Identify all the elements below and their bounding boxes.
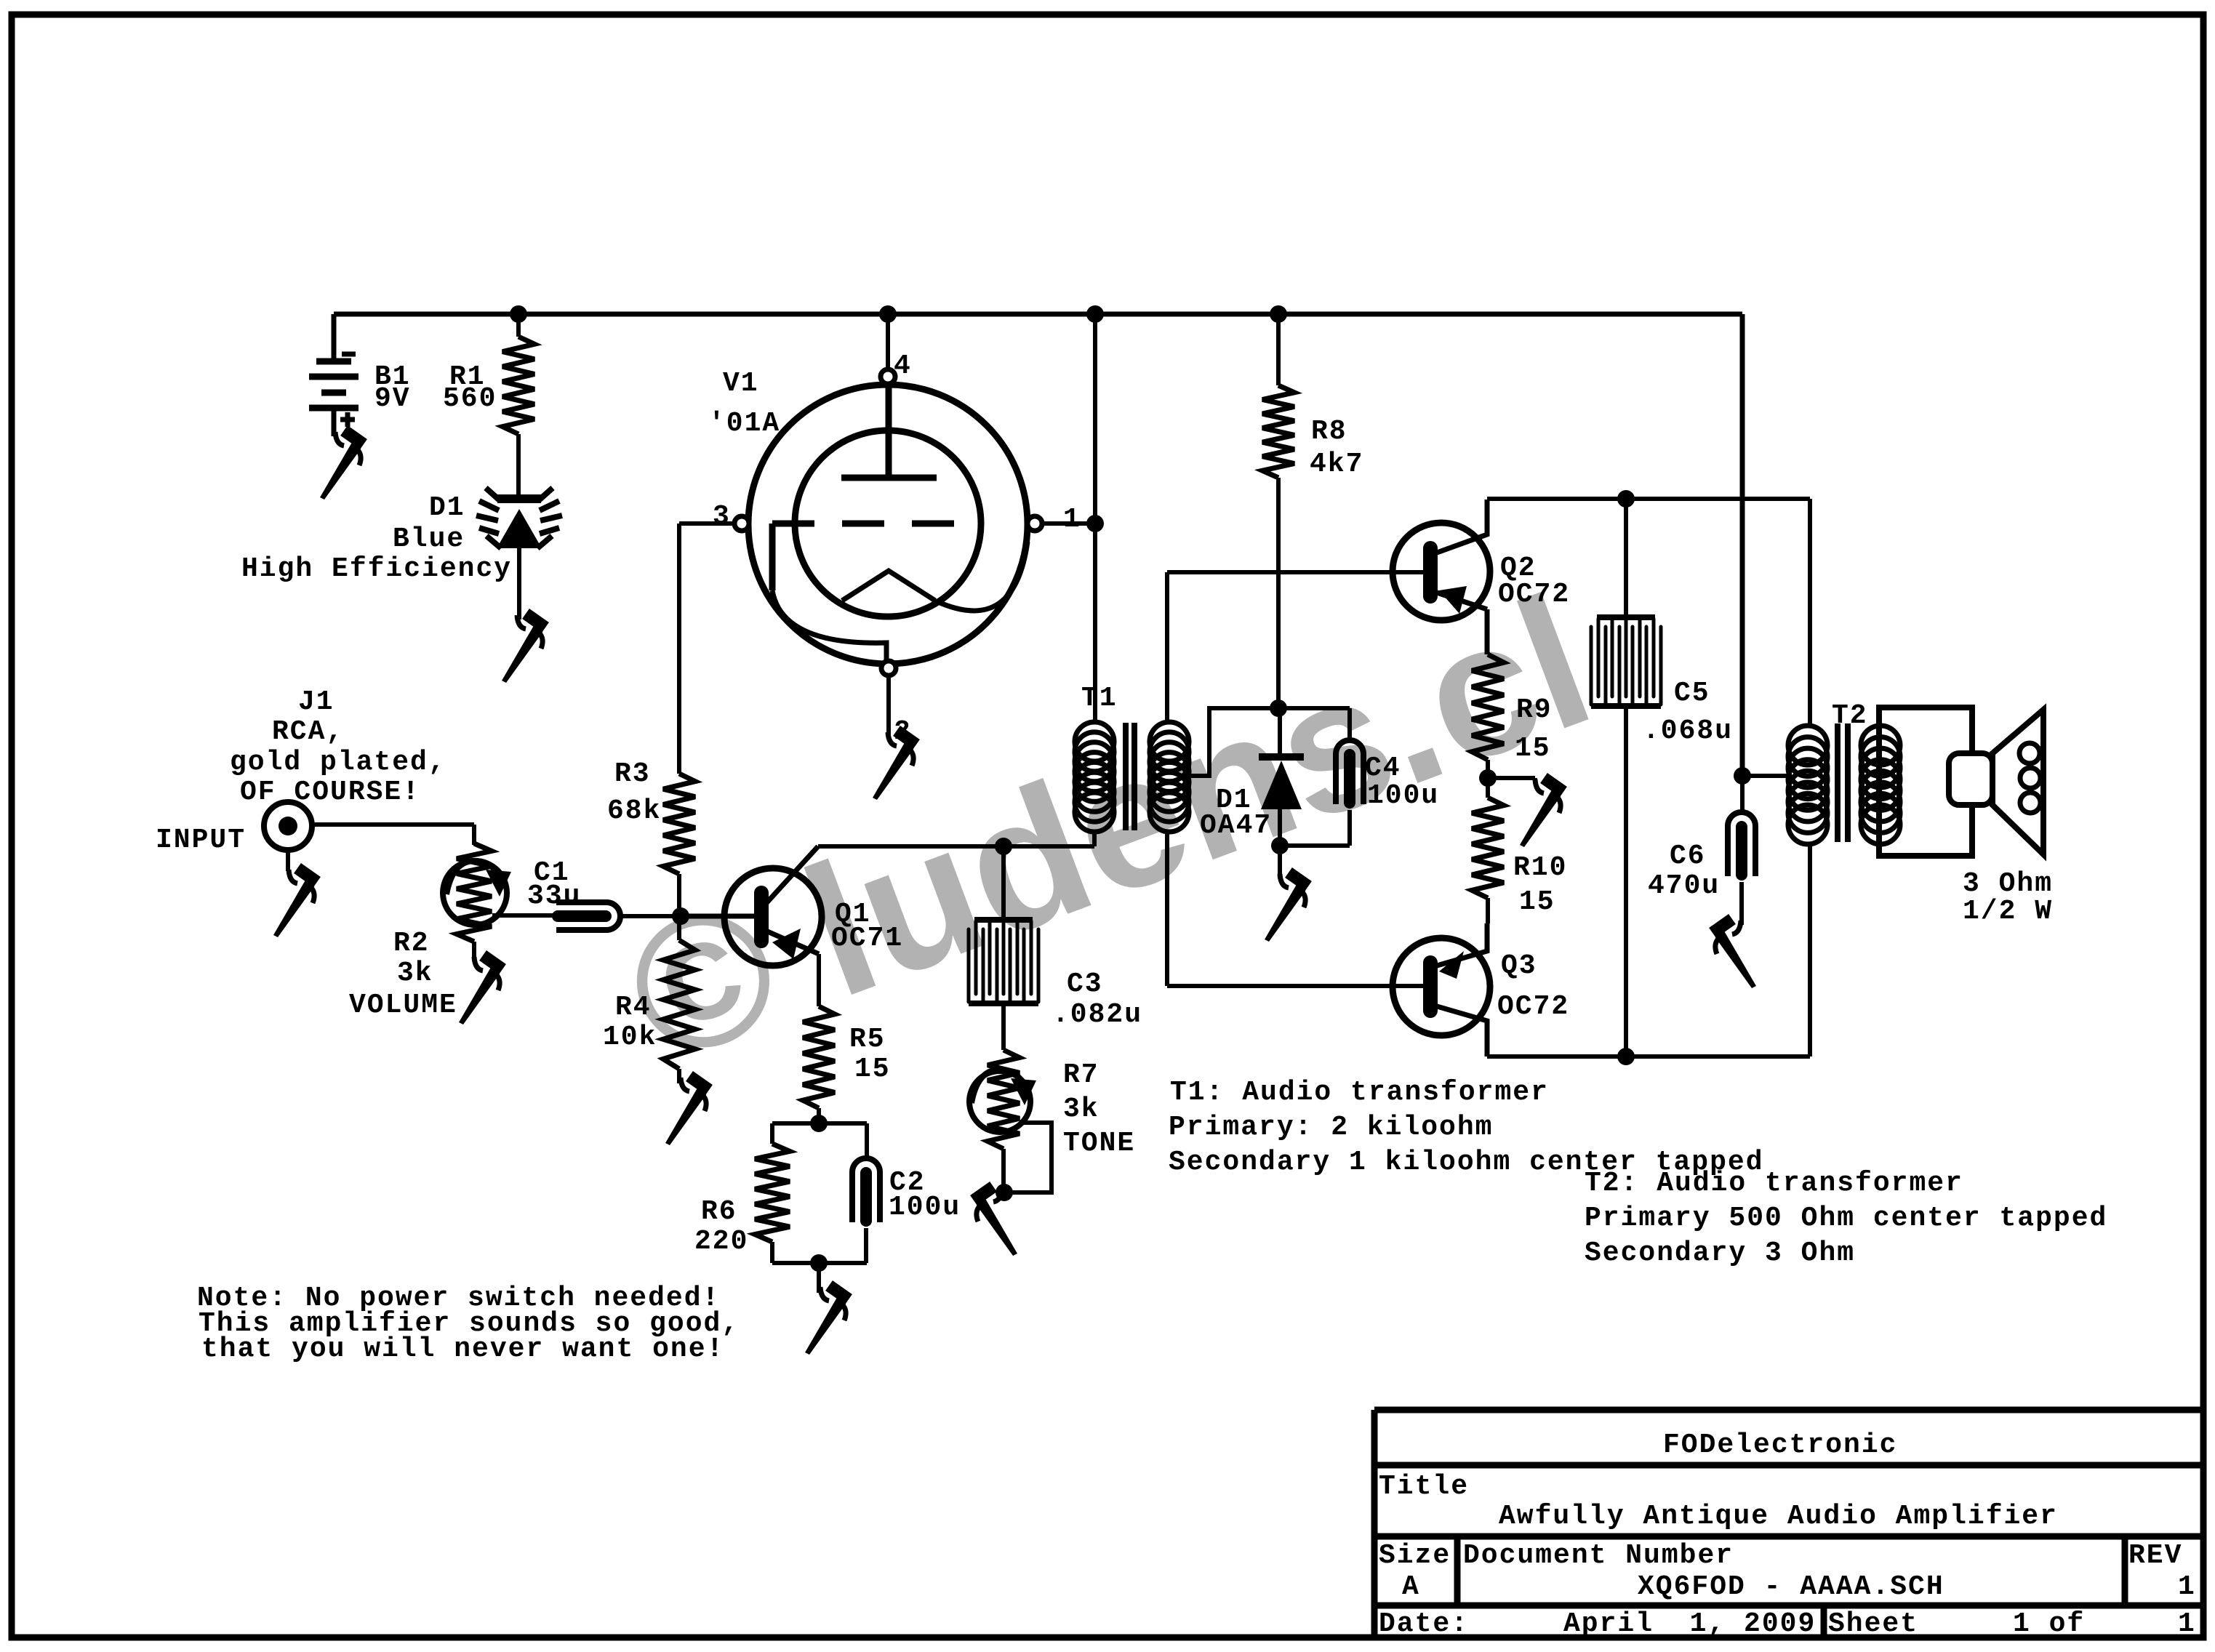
wire R6C2 bottom — [772, 1261, 867, 1265]
capacitor C3 top lead — [1001, 846, 1006, 917]
svg-text:.082u: .082u — [1052, 999, 1142, 1030]
label .068u — [1643, 715, 1733, 747]
label OF COURSE! — [240, 777, 420, 808]
label '01A — [708, 408, 780, 439]
note bottom line2 — [199, 1308, 740, 1339]
label 33u — [527, 881, 581, 912]
label C3 — [1067, 969, 1103, 1000]
svg-text:R5: R5 — [849, 1024, 886, 1055]
svg-text:.068u: .068u — [1643, 715, 1733, 747]
label D1 — [429, 492, 465, 524]
label R10 — [1513, 852, 1567, 883]
transistor Q2 emitter — [1437, 593, 1487, 609]
label Q3 — [1501, 950, 1537, 982]
svg-text:TONE: TONE — [1063, 1128, 1135, 1159]
transistor Q3 circle — [1393, 938, 1490, 1035]
label Q2 — [1500, 553, 1537, 584]
svg-text:April 1, 2009: April 1, 2009 — [1563, 1608, 1816, 1640]
label VOLUME — [349, 990, 457, 1021]
title company — [1663, 1430, 1897, 1461]
tube V1 right inner arc — [937, 542, 1028, 611]
transistor Q2 base bar — [1423, 548, 1438, 596]
title date — [1563, 1608, 1816, 1640]
diode D1 triangle — [1261, 761, 1302, 809]
node R6C2 ground — [810, 1254, 828, 1272]
battery minus sign — [342, 352, 356, 357]
node pin1 junction — [1086, 515, 1104, 532]
tube V1 pin 4 — [881, 369, 895, 384]
svg-text:Size: Size — [1379, 1540, 1451, 1571]
ground pin at R9R10 — [1520, 778, 1563, 847]
potentiometer R7 bottom lead — [1001, 1149, 1006, 1192]
svg-text:R4: R4 — [615, 992, 652, 1023]
svg-text:1: 1 — [2178, 1571, 2196, 1603]
capacitor C2 — [852, 1158, 880, 1222]
title rev 1 — [2178, 1571, 2196, 1603]
svg-text:R3: R3 — [614, 758, 651, 790]
svg-text:OA47: OA47 — [1200, 810, 1272, 841]
node C5 top — [1617, 490, 1635, 508]
transformer T1 secondary coil — [1150, 722, 1189, 832]
potentiometer R7 circle — [969, 1071, 1030, 1132]
diode D1 top lead — [1278, 708, 1282, 757]
svg-text:Q3: Q3 — [1501, 950, 1537, 982]
svg-text:3k: 3k — [1063, 1094, 1100, 1125]
title date label — [1379, 1608, 1469, 1640]
node R7 wiper join — [996, 1184, 1013, 1201]
label D1 OA47 ref — [1216, 785, 1252, 816]
transformer T1 primary lead top — [1093, 314, 1097, 723]
ground pin at R4 — [665, 1076, 709, 1145]
speaker driver — [1949, 753, 1992, 805]
title doc label — [1463, 1540, 1734, 1571]
tube V1 filament — [842, 571, 935, 601]
svg-text:that you will never want one!: that you will never want one! — [201, 1334, 724, 1365]
node rail-T1 — [1086, 305, 1104, 323]
label .082u — [1052, 999, 1142, 1030]
title block grid — [1374, 1410, 2203, 1637]
capacitor C5 top lead — [1624, 499, 1628, 617]
label OC72 Q3 — [1497, 991, 1569, 1022]
ground pin at R6C2 — [805, 1286, 849, 1355]
capacitor C3 bottom lead — [1001, 1006, 1006, 1050]
label 3k — [397, 958, 433, 989]
resistor R5 top lead — [817, 954, 821, 1006]
resistor R5 — [803, 1006, 835, 1108]
tube V1 envelope — [748, 385, 1028, 664]
battery B1 bottom lead — [332, 408, 337, 436]
transistor Q3 collector — [1437, 1006, 1487, 1056]
wire J1 to R2 — [312, 825, 474, 845]
transformer T1 secondary top lead — [1165, 572, 1169, 722]
label R2 — [393, 928, 430, 959]
note T1 line3 — [1169, 1147, 1764, 1178]
label R9 — [1516, 694, 1553, 726]
label 1/2 W — [1963, 896, 2053, 927]
svg-text:'01A: '01A — [708, 408, 780, 439]
label 15 R9 — [1515, 733, 1551, 764]
wire V1 pin4 to rail — [886, 314, 890, 369]
transistor Q3 emitter arrow — [1439, 951, 1464, 979]
label 560 — [443, 383, 497, 414]
capacitor C6 — [1728, 812, 1755, 876]
label V1 — [723, 368, 759, 399]
label OC72 Q2 — [1498, 579, 1570, 610]
potentiometer R2 element — [457, 843, 492, 942]
svg-text:R2: R2 — [393, 928, 430, 959]
capacitor C3 — [969, 920, 1038, 1003]
svg-text:4: 4 — [894, 350, 912, 382]
svg-text:4k7: 4k7 — [1310, 449, 1363, 480]
label 100u C4 — [1367, 780, 1439, 811]
transformer T2 secondary coil — [1861, 726, 1900, 844]
potentiometer R2 wiper wire — [492, 913, 557, 918]
svg-text:Document Number: Document Number — [1463, 1540, 1734, 1571]
title size A — [1402, 1571, 1420, 1603]
capacitor C4 top lead — [1347, 708, 1352, 740]
tube V1 plate — [841, 383, 937, 478]
potentiometer R7 arrow — [972, 1070, 1036, 1105]
transistor Q2 circle — [1393, 523, 1490, 620]
resistor R8 bottom lead — [1276, 478, 1281, 708]
wire +9V top rail — [334, 312, 1742, 317]
transistor Q3 emitter — [1437, 923, 1487, 966]
wire R6C2 top — [772, 1121, 867, 1126]
label 9V — [374, 383, 411, 414]
label TONE — [1063, 1128, 1135, 1159]
tube V1 inner circle — [795, 430, 981, 617]
wire J1 ground stub — [286, 850, 290, 871]
resistor R1 bottom lead — [516, 434, 521, 496]
svg-text:C5: C5 — [1674, 678, 1710, 709]
label OA47 — [1200, 810, 1272, 841]
transformer T1 center tap — [1188, 708, 1350, 776]
transistor Q3 base bar — [1423, 963, 1438, 1011]
transistor Q2 collector — [1437, 500, 1487, 553]
tube V1 pin 3 — [734, 516, 749, 531]
label 470u — [1648, 870, 1720, 902]
LED D1 rays left — [476, 488, 501, 548]
svg-text:A: A — [1402, 1571, 1420, 1603]
wire rail drop to T2 center tap — [1740, 314, 1745, 776]
title sheet total — [2178, 1608, 2196, 1640]
label T2 — [1832, 700, 1868, 731]
label RCA, — [272, 716, 344, 747]
svg-text:V1: V1 — [723, 368, 759, 399]
svg-text:OC72: OC72 — [1497, 991, 1569, 1022]
battery B1 top lead — [332, 314, 337, 361]
label 2 — [894, 716, 912, 747]
resistor R3 — [663, 774, 695, 874]
svg-text:220: 220 — [694, 1226, 748, 1257]
LED D1 triangle — [497, 509, 542, 548]
label 220 — [694, 1226, 748, 1257]
svg-text:68k: 68k — [607, 795, 661, 827]
wire D1C4 ground stub — [1278, 846, 1282, 878]
title sheet 1 of — [2013, 1608, 2085, 1640]
wire D1-C4 bottom — [1280, 843, 1350, 848]
svg-text:XQ6FOD - AAAA.SCH: XQ6FOD - AAAA.SCH — [1638, 1571, 1944, 1603]
label 3k tone — [1063, 1094, 1100, 1125]
capacitor C1 right lead — [622, 914, 681, 918]
node Q1 base junction — [672, 907, 689, 925]
ground pin at C6 — [1713, 919, 1756, 988]
ground pin at D1C4 — [1265, 873, 1308, 942]
transistor Q1 collector — [766, 846, 818, 904]
transformer T2 center tap wire — [1742, 774, 1788, 778]
transistor Q1 emitter — [766, 931, 819, 954]
resistor R1 top lead — [516, 314, 521, 337]
diode D1 cathode bar — [1259, 753, 1304, 761]
label C4 — [1365, 753, 1401, 784]
resistor R10 bottom lead — [1486, 898, 1490, 923]
transistor Q1 base lead — [681, 914, 754, 919]
node C5 bottom — [1617, 1048, 1635, 1065]
label 4 — [894, 350, 912, 382]
capacitor C2 bottom lead — [864, 1228, 868, 1263]
diode D1 bottom lead — [1278, 809, 1282, 846]
note T2 line1 — [1585, 1168, 1963, 1199]
label R6 — [701, 1196, 737, 1227]
label R5 — [849, 1024, 886, 1055]
potentiometer R7 element — [988, 1050, 1020, 1149]
node T2 center tap — [1734, 767, 1751, 785]
wire R6C2 ground stub — [817, 1263, 821, 1293]
title rev label — [2128, 1540, 2182, 1571]
transformer T1 core — [1126, 723, 1134, 830]
speaker horn — [1992, 710, 2043, 854]
connector J1 RCA jack — [264, 802, 312, 850]
resistor R5 bottom lead — [817, 1108, 821, 1123]
label R4 — [615, 992, 652, 1023]
svg-text:High Efficiency: High Efficiency — [241, 553, 512, 585]
LED D1 rays right — [537, 488, 562, 548]
ground pin at R7 — [974, 1187, 1017, 1256]
svg-text:T1: Audio transformer: T1: Audio transformer — [1170, 1077, 1549, 1108]
label 15 — [854, 1054, 891, 1085]
title size label — [1379, 1540, 1451, 1571]
wire collector rail top — [1487, 497, 1810, 501]
svg-text:C6: C6 — [1670, 841, 1706, 872]
title name — [1499, 1501, 2058, 1532]
battery plus sign — [340, 412, 355, 427]
svg-text:VOLUME: VOLUME — [349, 990, 457, 1021]
svg-text:REV: REV — [2128, 1540, 2182, 1571]
svg-text:T1: T1 — [1081, 683, 1118, 714]
resistor R10 — [1472, 798, 1504, 898]
note T2 line3 — [1585, 1238, 1855, 1269]
resistor R4 top lead — [677, 916, 681, 940]
wire T1 sec bottom to Q3 base — [1167, 984, 1423, 988]
ground pin at R2 — [459, 955, 502, 1025]
svg-text:Secondary 3 Ohm: Secondary 3 Ohm — [1585, 1238, 1855, 1269]
label C5 — [1674, 678, 1710, 709]
resistor R9 — [1472, 654, 1504, 760]
transformer T1 primary coil — [1075, 722, 1114, 832]
label R1 — [449, 361, 486, 393]
svg-text:T2: Audio transformer: T2: Audio transformer — [1585, 1168, 1963, 1199]
speaker frame — [1879, 707, 1972, 856]
label 1 — [1063, 504, 1081, 535]
svg-text:INPUT: INPUT — [156, 825, 246, 856]
svg-text:Primary 500 Ohm center tapped: Primary 500 Ohm center tapped — [1585, 1203, 2107, 1234]
label Blue — [393, 524, 465, 555]
svg-text:Date:: Date: — [1379, 1608, 1469, 1640]
capacitor C4 — [1336, 740, 1363, 804]
tube V1 grid lead — [769, 524, 776, 590]
label 68k — [607, 795, 661, 827]
note T2 line2 — [1585, 1203, 2107, 1234]
tube V1 pin 2 — [881, 661, 896, 675]
svg-text:R7: R7 — [1063, 1059, 1100, 1091]
title doc number — [1638, 1571, 1944, 1603]
wire R9R10 stub — [1488, 778, 1535, 781]
wire R6 branch top — [770, 1123, 774, 1144]
label C2 — [889, 1167, 926, 1198]
svg-text:15: 15 — [854, 1054, 891, 1085]
svg-text:R8: R8 — [1311, 416, 1347, 447]
svg-text:100u: 100u — [889, 1192, 961, 1223]
label High Efficiency — [241, 553, 512, 585]
node R8-centretap — [1270, 699, 1287, 717]
ground pin at LED D1 — [502, 614, 545, 683]
svg-text:OC72: OC72 — [1498, 579, 1570, 610]
wire bottom rail — [1487, 1054, 1810, 1059]
svg-text:1: 1 — [1063, 504, 1081, 535]
wire V1 pin1 to T1 line — [1042, 521, 1095, 526]
capacitor C5 bottom lead — [1624, 707, 1628, 1056]
label R7 — [1063, 1059, 1100, 1091]
label 3 Ohm — [1963, 868, 2053, 899]
label 10k — [603, 1022, 657, 1053]
resistor R8 top lead — [1276, 314, 1281, 385]
wire V1 pin2 down — [886, 675, 891, 739]
watermark ludens.cl — [601, 556, 1615, 1104]
svg-text:560: 560 — [443, 383, 497, 414]
resistor R1 — [502, 337, 534, 434]
svg-text:R6: R6 — [701, 1196, 737, 1227]
svg-text:15: 15 — [1515, 733, 1551, 764]
capacitor C6 bottom lead — [1739, 882, 1744, 925]
svg-text:100u: 100u — [1367, 780, 1439, 811]
svg-text:OF COURSE!: OF COURSE! — [240, 777, 420, 808]
node rail-R1 — [510, 305, 527, 323]
label J1 — [298, 686, 335, 718]
label 15 R10 — [1519, 886, 1555, 918]
svg-text:J1: J1 — [298, 686, 335, 718]
svg-text:Sheet: Sheet — [1828, 1608, 1918, 1640]
svg-text:C4: C4 — [1365, 753, 1401, 784]
svg-text:C3: C3 — [1067, 969, 1103, 1000]
speaker holes — [2019, 743, 2040, 813]
svg-text:Title: Title — [1379, 1471, 1469, 1502]
svg-text:15: 15 — [1519, 886, 1555, 918]
node D1C4 ground — [1271, 837, 1289, 854]
resistor R6 bottom lead — [770, 1242, 774, 1263]
potentiometer R2 bottom lead — [472, 942, 476, 961]
svg-text:10k: 10k — [603, 1022, 657, 1053]
svg-text:RCA,: RCA, — [272, 716, 344, 747]
label Q1 — [835, 899, 871, 930]
wire T1 sec top to Q2 base — [1167, 570, 1423, 574]
transformer T1 secondary bottom lead — [1165, 832, 1169, 986]
wire Q1 collector to T1 — [818, 844, 1094, 849]
node rail-R8 — [1270, 305, 1287, 323]
label gold plated, — [230, 747, 446, 778]
svg-text:3 Ohm: 3 Ohm — [1963, 868, 2053, 899]
svg-text:R10: R10 — [1513, 852, 1567, 883]
svg-text:Awfully Antique Audio Amplifie: Awfully Antique Audio Amplifier — [1499, 1501, 2058, 1532]
label R8 — [1311, 416, 1347, 447]
node rail-V1 pin4 — [879, 305, 897, 323]
svg-text:9V: 9V — [374, 383, 411, 414]
resistor R4 bottom lead — [677, 1069, 681, 1083]
node R9-R10 — [1479, 769, 1497, 787]
label 3 — [713, 501, 731, 532]
note T1 line1 — [1170, 1077, 1549, 1108]
tube V1 pin 1 — [1028, 516, 1042, 531]
label OC71 — [831, 923, 903, 954]
resistor R3 bottom lead — [677, 874, 681, 916]
label B1 — [374, 361, 411, 393]
transformer T2 core — [1838, 723, 1848, 842]
transformer T1 primary lead bottom — [1092, 832, 1097, 846]
svg-text:1: 1 — [2178, 1608, 2196, 1640]
svg-text:D1: D1 — [429, 492, 465, 524]
transistor Q2 emitter lead — [1485, 609, 1490, 654]
title label — [1379, 1471, 1469, 1502]
resistor R6 — [755, 1144, 790, 1242]
capacitor C2 top lead — [865, 1123, 869, 1158]
svg-text:T2: T2 — [1832, 700, 1868, 731]
svg-text:1 of: 1 of — [2013, 1608, 2085, 1640]
transistor Q1 base bar — [754, 893, 769, 941]
capacitor C4 bottom lead — [1347, 810, 1352, 846]
label C6 — [1670, 841, 1706, 872]
LED D1 bottom lead — [517, 548, 521, 619]
ground pin at J1 — [273, 868, 317, 937]
capacitor C1 (rotated polarized) — [556, 902, 620, 930]
svg-text:Blue: Blue — [393, 524, 465, 555]
note bottom line3 — [201, 1334, 724, 1365]
potentiometer R2 arrow — [446, 861, 511, 897]
potentiometer R2 circle — [443, 861, 507, 925]
potentiometer R7 wiper loop — [1004, 1123, 1052, 1192]
title sheet label — [1828, 1608, 1918, 1640]
svg-text:3k: 3k — [397, 958, 433, 989]
label 4k7 — [1310, 449, 1363, 480]
transformer T2 primary coil — [1788, 726, 1827, 844]
battery B1 plates — [309, 361, 359, 408]
tube V1 grid (dashed) — [772, 521, 980, 527]
svg-text:FODelectronic: FODelectronic — [1663, 1430, 1897, 1461]
capacitor C5 — [1591, 617, 1661, 706]
node R5-R6C2 — [810, 1115, 828, 1132]
ground pin at battery B1 — [320, 430, 364, 500]
svg-text:gold plated,: gold plated, — [230, 747, 446, 778]
transistor Q2 emitter arrow — [1439, 586, 1467, 614]
svg-text:3: 3 — [713, 501, 731, 532]
label T1 — [1081, 683, 1118, 714]
label C1 — [534, 857, 570, 889]
transformer T2 primary bottom lead — [1808, 844, 1812, 1056]
svg-text:1/2 W: 1/2 W — [1963, 896, 2053, 927]
label INPUT — [156, 825, 246, 856]
resistor R4 — [663, 940, 695, 1069]
resistor R9 bottom lead — [1486, 760, 1490, 798]
svg-text:470u: 470u — [1648, 870, 1720, 902]
svg-text:33u: 33u — [527, 881, 581, 912]
